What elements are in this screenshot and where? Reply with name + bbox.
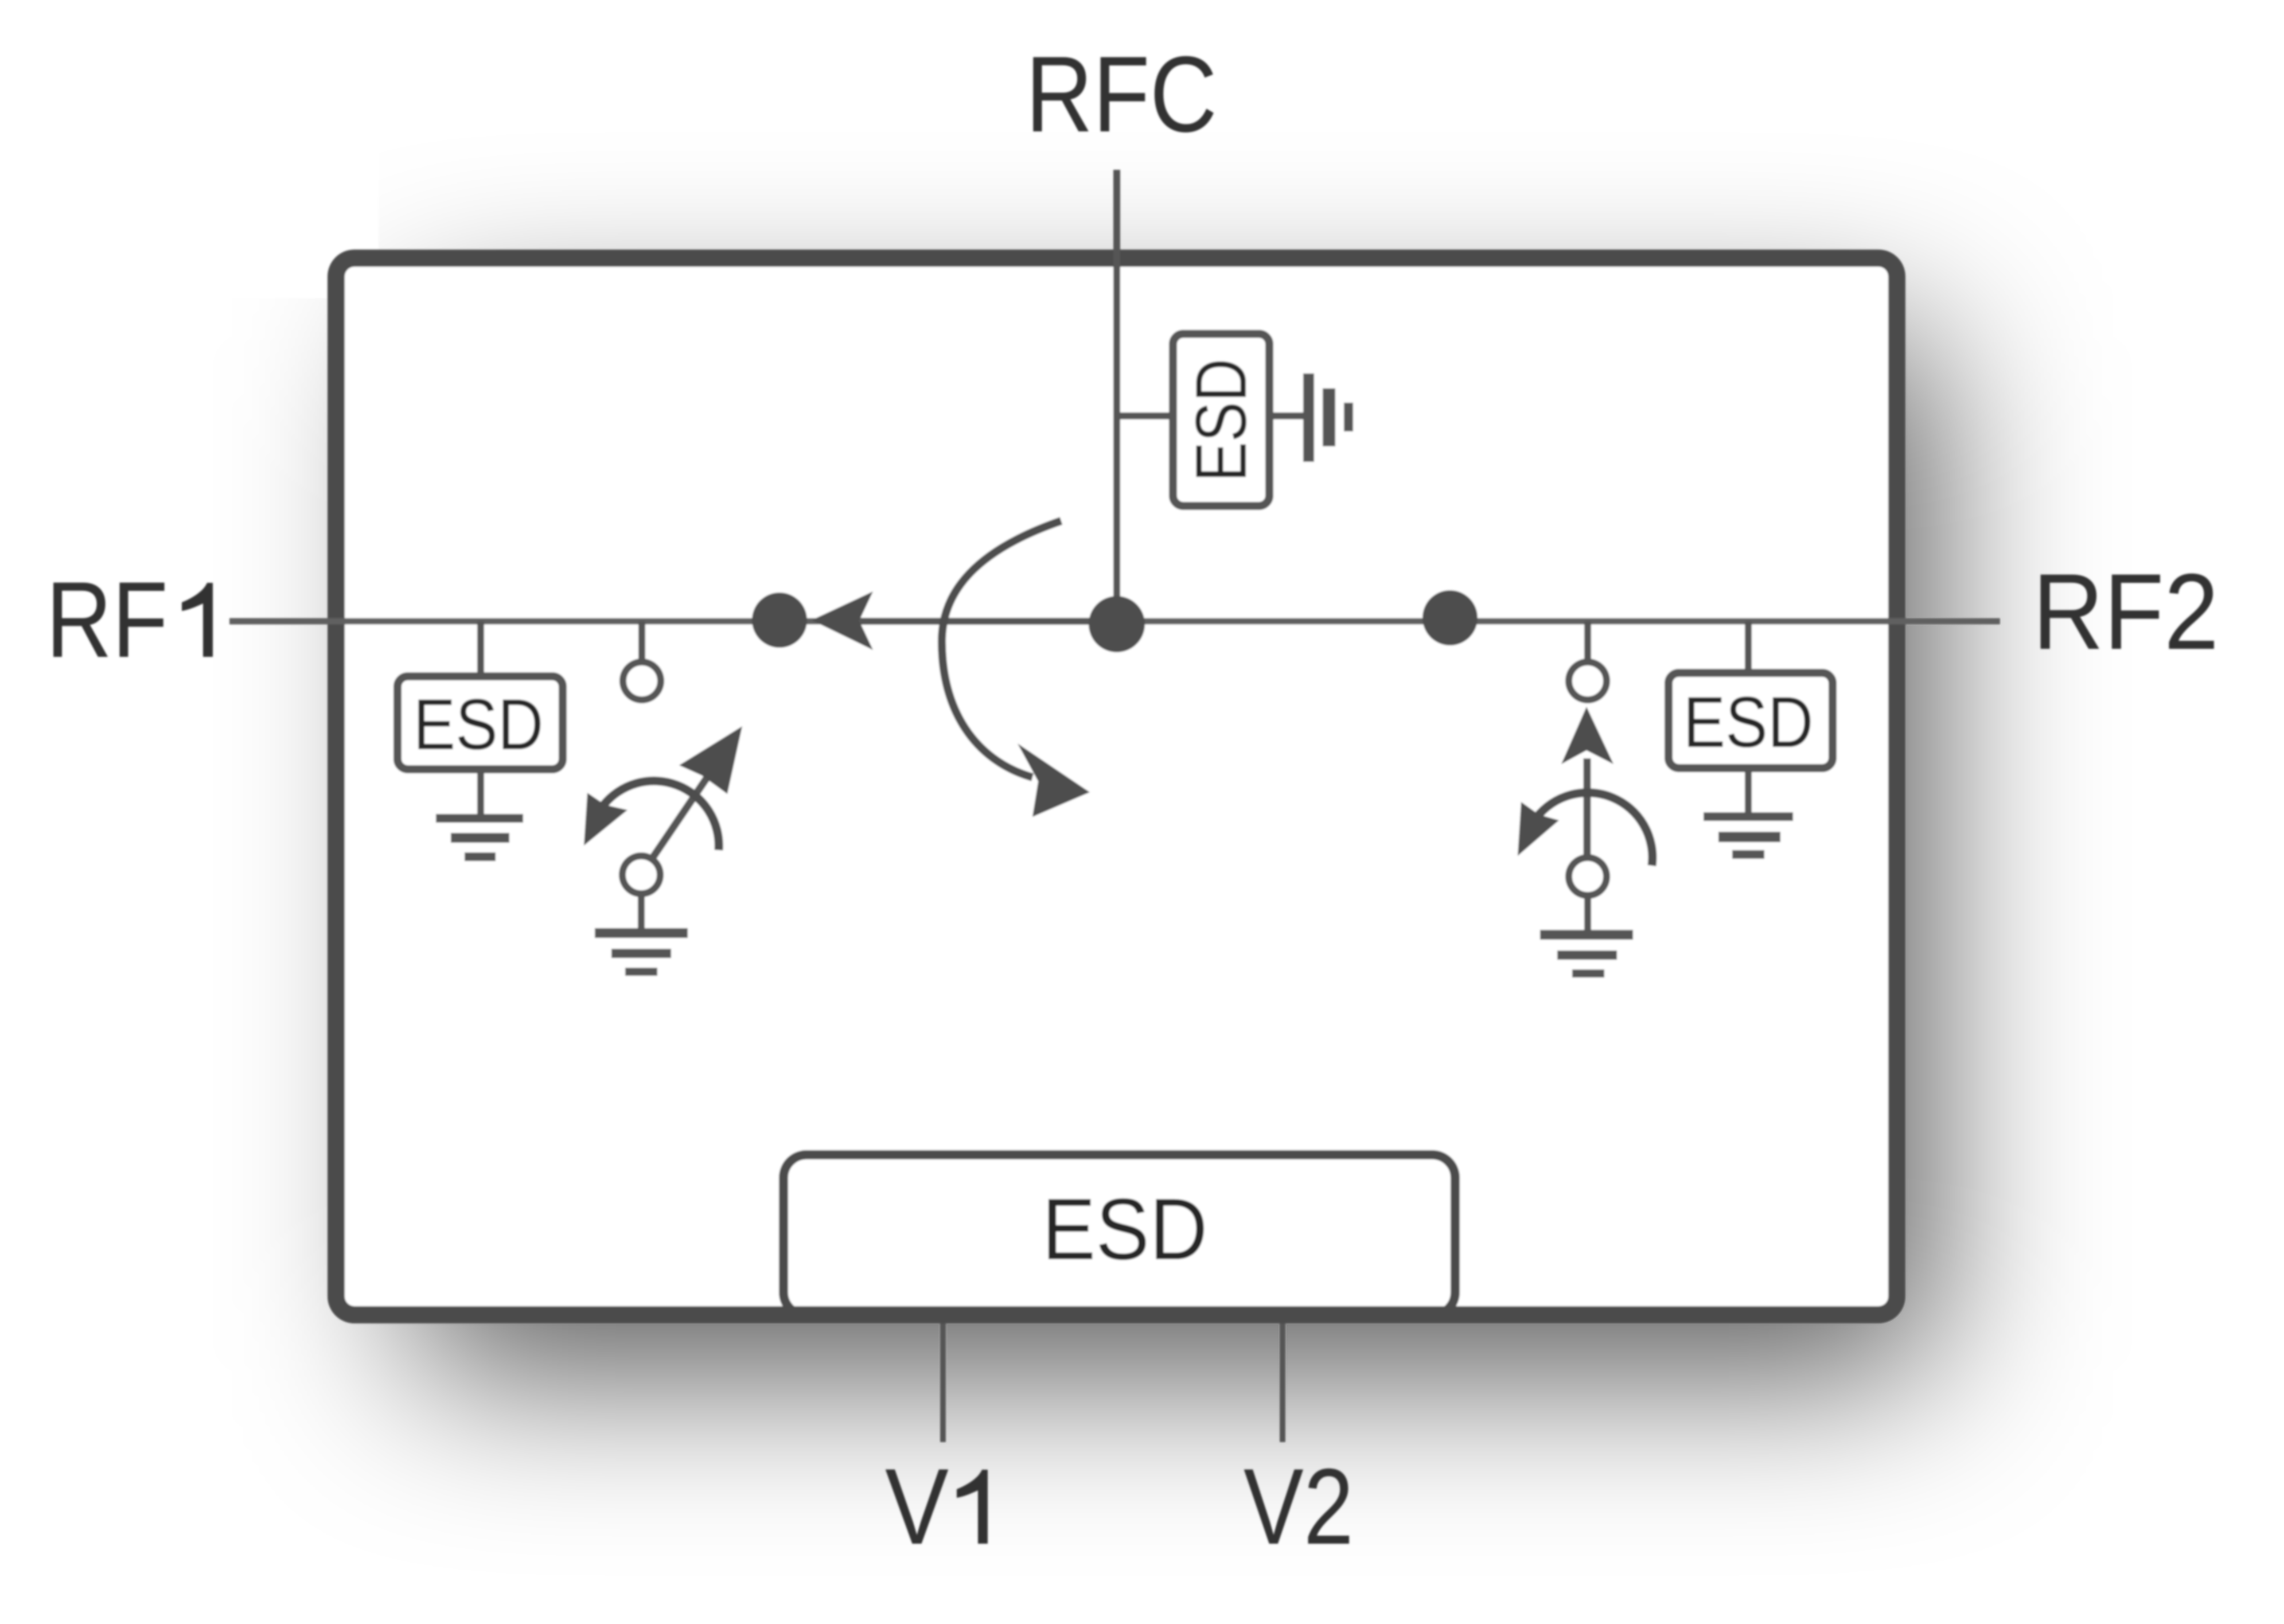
ground right of U3: bar3 (1344, 403, 1353, 431)
label V1 digit 1 (957, 1470, 988, 1544)
node RFC junction dot (1089, 596, 1145, 652)
switch SW0 rotation curved arrow (942, 521, 1061, 777)
ESD block U2 (right) (1669, 673, 1833, 768)
switch SW1 arm arrowhead (679, 726, 742, 794)
switch SW2 rotation curved arrow (1537, 793, 1652, 866)
switch SW1 rotation curved arrow (603, 781, 719, 850)
svg-text:V: V (885, 1446, 949, 1567)
ground below SW2: stub (1584, 895, 1591, 932)
ground below U1: bar2 (451, 833, 509, 843)
ESD block U1 (left) (397, 676, 563, 769)
ground below SW2: bar2 (1557, 951, 1617, 960)
switch SW1 arm shaft (652, 776, 708, 859)
svg-text:RF2: RF2 (2033, 551, 2219, 672)
ESD block U4 (bottom) (784, 1155, 1455, 1315)
ground below SW1: bar3 (625, 968, 657, 976)
svg-text:V2: V2 (1244, 1446, 1354, 1567)
switch SW2 arm shaft (1584, 758, 1591, 856)
wire stub to left ESD (477, 621, 484, 674)
wire stub to right ESD (1745, 621, 1752, 671)
ground right of U3: bar1 (1303, 373, 1314, 462)
switch SW2 arm arrowhead (1561, 707, 1613, 764)
ground below U1: stub (477, 773, 484, 817)
switch SW2 pivot circle (right) (1569, 858, 1607, 895)
svg-text:RFC: RFC (1026, 34, 1217, 154)
ground below SW1: stub (638, 894, 645, 930)
wire ESD U3 to ground (1269, 412, 1305, 419)
ground below U1: bar1 (436, 814, 523, 823)
ground below SW1: bar1 (595, 928, 688, 938)
switch SW0 rotation arrowhead (1018, 743, 1090, 817)
chip outline drop shadow (414, 333, 1931, 1375)
ground below U1: bar3 (465, 852, 496, 861)
wire RFC vertical (1113, 170, 1120, 625)
ground below U2: bar2 (1718, 832, 1780, 842)
ground below SW2: bar3 (1572, 969, 1604, 977)
svg-text:RF: RF (46, 559, 168, 680)
svg-text:ESD: ESD (1683, 683, 1814, 762)
ground below SW1: bar2 (611, 949, 671, 958)
wire V1 (940, 1319, 946, 1442)
wire stub to left contact (638, 621, 645, 660)
svg-text:ESD: ESD (1042, 1181, 1208, 1278)
ground below SW2: bar1 (1540, 930, 1633, 940)
switch SW0 series arm arrowhead (812, 591, 873, 650)
wire stub to right contact (1584, 621, 1591, 660)
ground below U2: bar3 (1732, 850, 1764, 859)
switch SW2 contact circle (right) (1569, 662, 1607, 700)
svg-text:ESD: ESD (414, 685, 544, 765)
ground below U2: bar1 (1704, 812, 1793, 821)
switch SW0 series arm wire (860, 618, 1117, 625)
ESD block U3 (top, rotated) (1173, 334, 1269, 506)
node RF1 junction dot (752, 593, 807, 648)
switch SW1 contact circle (left) (623, 662, 661, 700)
node RF2 junction dot (1422, 590, 1478, 645)
chip outline box (336, 258, 1897, 1315)
ground right of U3: bar2 (1323, 388, 1335, 446)
svg-text:ESD: ESD (1182, 359, 1261, 482)
wire RFC to ESD U3 (top) (1117, 412, 1173, 419)
switch SW1 rotation arrowhead (584, 793, 627, 846)
label RF1 digit 1 (182, 583, 213, 657)
wire RF1-RF2 horizontal line (229, 618, 2000, 625)
chip bottom border overlay (774, 1306, 1468, 1323)
ground below U2: stub (1745, 769, 1752, 815)
switch SW2 rotation arrowhead (1518, 802, 1559, 856)
switch SW1 pivot circle (left) (622, 856, 660, 894)
wire V2 (1280, 1319, 1285, 1442)
